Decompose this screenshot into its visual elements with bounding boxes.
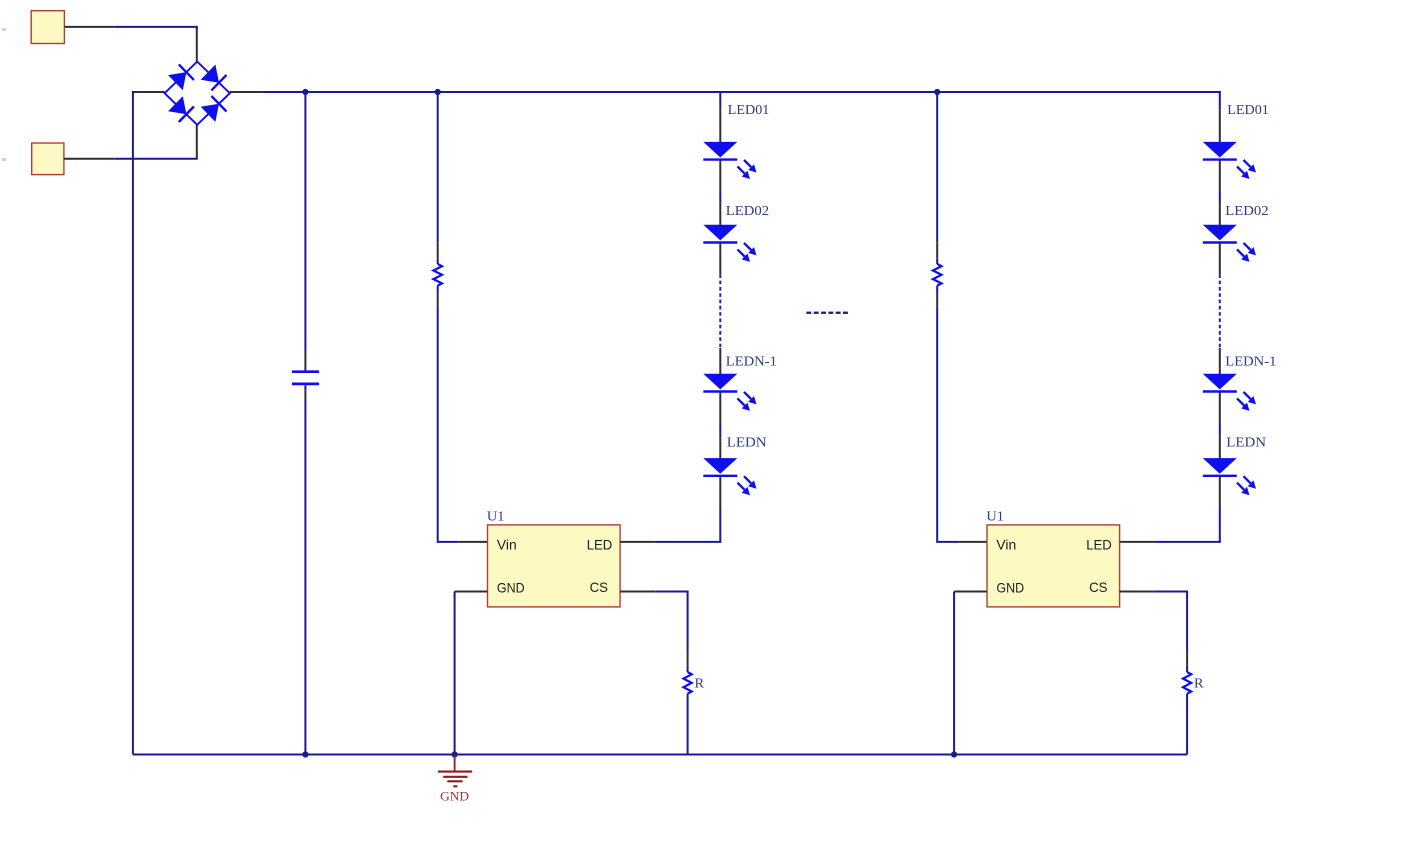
wire CS pin to sense resistor B	[1155, 592, 1187, 651]
svg-text:Vin: Vin	[497, 537, 517, 552]
wire bridge AC2 pin stub	[196, 124, 198, 159]
svg-text:CS: CS	[590, 580, 608, 595]
connector pad P1	[31, 11, 64, 44]
wire top rail corner to right LED string	[1219, 91, 1221, 93]
wire rail to LED string A	[719, 92, 721, 109]
U1 Vin pin stub A	[459, 541, 488, 543]
junction bottom rail GND A	[452, 751, 458, 757]
svg-text:LED: LED	[587, 537, 613, 552]
svg-text:U1: U1	[487, 510, 505, 525]
wire CS pin to sense resistor A	[655, 592, 687, 651]
wire P2 pin stub	[64, 158, 115, 160]
U1 GND pin stub B	[954, 591, 987, 593]
svg-text:CS: CS	[1089, 580, 1107, 595]
LED LED02 triangle	[703, 225, 737, 241]
wire bottom GND rail	[133, 754, 1187, 756]
LED LEDN triangle	[703, 458, 737, 474]
U1 CS pin stub A	[620, 591, 655, 593]
LED LED01 light arrows	[1244, 160, 1251, 167]
wire DC- vertical to bottom rail	[132, 91, 134, 755]
LED string pin stub top B	[1219, 109, 1221, 142]
wire rail to LED string B	[1219, 92, 1221, 109]
LED LED01 cathode bar	[703, 158, 737, 160]
U1 GND pin stub A	[455, 591, 488, 593]
wire P1 pin stub	[65, 26, 115, 28]
junction top rail / capacitor	[302, 89, 308, 95]
ground symbol bars	[438, 771, 472, 773]
page margin tick marks	[2, 28, 6, 31]
LED LEDN-1 cathode bar	[703, 390, 737, 392]
wire bridge AC1 pin stub	[196, 29, 198, 63]
wire capacitor bottom	[304, 401, 306, 755]
svg-text:LED02: LED02	[1225, 204, 1268, 219]
wire GND pin down to rail B	[953, 592, 955, 755]
svg-text:GND: GND	[497, 580, 525, 595]
LED LEDN-1 triangle	[703, 374, 737, 390]
LED LEDN triangle	[1203, 458, 1237, 474]
LED LED02 cathode bar	[703, 241, 737, 243]
wire resistor A to Vin	[438, 307, 459, 542]
LED LEDN cathode bar	[1203, 475, 1237, 477]
LED LED01 triangle	[703, 142, 737, 158]
wire LED pin to LED string B	[1155, 541, 1221, 543]
wire rail to resistor B	[936, 92, 938, 242]
wire LED01-LED02 B	[1219, 160, 1221, 192]
svg-text:LEDN: LEDN	[1226, 436, 1266, 451]
svg-text:LEDN-1: LEDN-1	[1225, 355, 1276, 370]
svg-text:R: R	[1194, 675, 1204, 690]
svg-text:LEDN: LEDN	[727, 436, 767, 451]
LED LEDN light arrows	[744, 476, 751, 483]
wire LEDN-1 to LEDN B	[1219, 392, 1221, 425]
wire dashed to LEDN-1 A	[719, 348, 721, 374]
resistor A top pin stub	[437, 242, 439, 258]
wire GND pin down to rail A	[454, 592, 456, 755]
LED LED01 cathode bar	[1203, 158, 1237, 160]
IC U1 body A	[488, 525, 621, 607]
wire rail to resistor A	[437, 92, 439, 242]
wire bridge DC- pin stub	[133, 91, 165, 93]
wire LED02 to dashed B	[1219, 242, 1221, 274]
LED LED02 light arrows	[1244, 243, 1251, 250]
sense resistor R top pin stub B	[1186, 650, 1188, 666]
capacitor C1 plates	[292, 370, 319, 373]
bridge rectifier diamond outline	[165, 62, 230, 125]
wire LED02 to dashed A	[719, 242, 721, 274]
wire dashed to LEDN-1 B	[1219, 348, 1221, 374]
U1 LED pin stub B	[1120, 541, 1155, 543]
U1 Vin pin stub B	[958, 541, 987, 543]
LED LED01 triangle	[1203, 142, 1237, 158]
wire sense resistor to rail B	[1186, 694, 1188, 755]
wire LED pin to LED string A	[655, 541, 721, 543]
LED LED01 light arrows	[744, 160, 751, 167]
bridge diode D4 (bottom to right)	[201, 104, 219, 122]
LED LEDN-1 cathode bar	[1203, 390, 1237, 392]
svg-text:U1: U1	[986, 510, 1004, 525]
capacitor top pin stub	[304, 350, 306, 367]
LED LED02 triangle	[1203, 225, 1237, 241]
LED LEDN-1 light arrows	[1244, 392, 1251, 399]
wire P2 to bridge AC2	[115, 158, 198, 160]
svg-text:LED02: LED02	[726, 204, 769, 219]
svg-text:Vin: Vin	[996, 537, 1016, 552]
bridge diode D1 (left to top)	[168, 72, 186, 90]
junction bottom rail / capacitor	[302, 751, 308, 757]
wire P1 to bridge AC1	[115, 26, 198, 28]
LED string pin stub top A	[719, 109, 721, 142]
dashed continuation wire B	[1219, 274, 1221, 348]
IC U1 body B	[987, 525, 1120, 607]
sense resistor R zigzag A	[684, 672, 692, 694]
LED LEDN light arrows	[1244, 476, 1251, 483]
svg-text:LED01: LED01	[1227, 103, 1269, 118]
resistor B bottom pin stub	[936, 293, 938, 306]
U1 CS pin stub B	[1120, 591, 1155, 593]
svg-text:GND: GND	[996, 580, 1024, 595]
bridge diode D2 (top to right)	[201, 65, 219, 83]
wire LED string to LED pin corner B	[1219, 508, 1221, 542]
connector pad P2	[32, 143, 64, 175]
U1 LED pin stub A	[620, 541, 655, 543]
wire top +V rail	[264, 91, 1220, 93]
LED LEDN cathode bar	[703, 475, 737, 477]
svg-text:LED: LED	[1086, 537, 1112, 552]
sense resistor R top pin stub A	[687, 650, 689, 666]
ground symbol stem	[454, 756, 456, 772]
wire capacitor top	[304, 92, 306, 350]
LED LEDN-1 light arrows	[744, 392, 751, 399]
LED LED02 cathode bar	[1203, 241, 1237, 243]
svg-text:LEDN-1: LEDN-1	[726, 355, 777, 370]
LED string pin stub bottom B	[1219, 476, 1221, 508]
wire LED string to LED pin corner A	[719, 508, 721, 542]
LED string pin stub bottom A	[719, 476, 721, 508]
resistor A bottom pin stub	[437, 293, 439, 306]
wire sense resistor to rail A	[687, 694, 689, 755]
wire resistor B to Vin	[937, 307, 958, 542]
ellipsis dashes between channels	[806, 312, 811, 314]
sense resistor R zigzag B	[1183, 672, 1191, 694]
junction top rail / resistor 1	[435, 89, 441, 95]
resistor B zigzag body	[933, 264, 942, 286]
capacitor bottom pin stub	[304, 385, 306, 390]
dashed continuation wire A	[719, 274, 721, 348]
svg-text:LED01: LED01	[728, 103, 770, 118]
LED LEDN-1 triangle	[1203, 374, 1237, 390]
wire LED01-LED02 A	[719, 160, 721, 192]
bridge diode D3 (left to bottom)	[168, 96, 186, 114]
svg-text:R: R	[695, 675, 705, 690]
junction bottom rail GND B	[951, 751, 957, 757]
LED LED02 light arrows	[744, 243, 751, 250]
junction top rail / resistor 2	[934, 89, 940, 95]
svg-text:GND: GND	[440, 790, 469, 804]
wire LEDN-1 to LEDN A	[719, 392, 721, 425]
wire bridge DC+ pin stub	[230, 91, 264, 93]
resistor B top pin stub	[936, 242, 938, 258]
resistor A zigzag body	[433, 264, 442, 286]
